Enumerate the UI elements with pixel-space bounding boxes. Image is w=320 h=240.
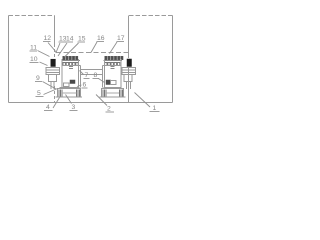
ground line <box>9 102 173 104</box>
svg-text:5: 5 <box>37 90 41 97</box>
leader 2 <box>96 95 107 106</box>
left damper boxes <box>64 83 70 87</box>
connecting rod between columns <box>81 70 103 75</box>
svg-text:6: 6 <box>83 82 87 89</box>
right column equals mark <box>111 67 115 69</box>
top rail dashed line <box>56 52 128 54</box>
svg-text:7: 7 <box>85 72 89 79</box>
leader 7 <box>80 71 84 75</box>
right block wall <box>172 16 174 103</box>
right bolt flange <box>122 68 136 75</box>
left roller row lower <box>63 63 78 66</box>
left foot <box>58 89 81 98</box>
leader 12 <box>48 43 57 53</box>
svg-text:17: 17 <box>117 35 125 42</box>
left block wall <box>8 16 10 103</box>
leader 6 <box>77 85 82 87</box>
svg-text:2: 2 <box>107 106 111 113</box>
right roller row lower <box>105 63 120 66</box>
right bolt cylinder <box>124 75 132 82</box>
left bolt cylinder <box>49 75 57 82</box>
leader 9 <box>43 82 57 90</box>
left column equals mark <box>69 67 73 69</box>
svg-text:9: 9 <box>36 75 40 82</box>
svg-text:11: 11 <box>30 45 37 52</box>
svg-text:8: 8 <box>94 72 98 79</box>
left bolt head <box>51 59 56 66</box>
leader 4 <box>53 98 60 109</box>
leader 5 <box>44 89 58 95</box>
leader 15 <box>65 43 79 57</box>
left column <box>61 59 63 88</box>
svg-text:10: 10 <box>30 56 38 63</box>
leader 1 <box>135 93 151 108</box>
svg-text:15: 15 <box>78 36 86 43</box>
right roller row upper <box>105 57 123 60</box>
right block inner edge lower <box>128 67 130 103</box>
left bolt shaft <box>51 82 54 90</box>
leader 17 <box>110 42 118 54</box>
right carriage plate line <box>104 60 123 62</box>
right bolt shaft <box>127 82 131 90</box>
svg-text:12: 12 <box>44 35 52 42</box>
svg-text:3: 3 <box>72 104 76 111</box>
svg-text:16: 16 <box>97 35 105 42</box>
right bolt head <box>127 59 132 67</box>
svg-text:1: 1 <box>153 105 157 112</box>
right damper boxes <box>106 80 111 85</box>
left bolt flange <box>46 68 60 75</box>
left bolt centerline lower <box>54 86 56 102</box>
svg-text:14: 14 <box>66 36 74 43</box>
leader 3 <box>66 95 72 104</box>
leader 13 <box>56 43 60 53</box>
right foot <box>102 89 124 98</box>
left carriage plate line <box>62 60 81 62</box>
leader 11 <box>38 51 50 57</box>
svg-text:4: 4 <box>46 104 50 111</box>
leader 10 <box>40 62 48 66</box>
right column <box>104 59 106 88</box>
leader 16 <box>91 42 97 53</box>
leader 8 <box>99 79 105 83</box>
left roller row upper <box>63 57 78 60</box>
leader 14 <box>58 43 67 56</box>
